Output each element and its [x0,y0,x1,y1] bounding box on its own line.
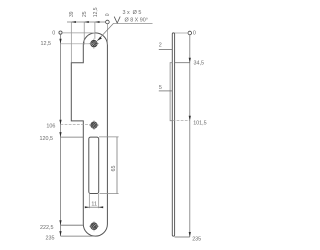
svg-text:39: 39 [69,11,75,17]
hole bottom [91,223,98,230]
top extension line 39 [70,22,72,63]
right ordinate dimension line [188,31,192,237]
top extension line 0 [106,24,108,45]
svg-text:Ø 8 X 90°: Ø 8 X 90° [125,18,148,24]
svg-text:5: 5 [159,85,162,91]
left ordinate dimension line [59,31,62,236]
top ordinate dimension line [67,20,109,24]
dim 65 extension top [99,136,119,138]
svg-text:0: 0 [193,30,196,36]
dim 11 arrows [85,206,103,208]
right leader 235 [175,236,190,238]
top dim arrows [71,21,99,23]
side view plate strip [172,33,174,236]
svg-text:106: 106 [46,123,55,129]
dim 11 extension right [98,194,100,208]
right leader 34,5 [175,62,190,64]
svg-text:235: 235 [46,236,55,242]
top extension line 12.5 [94,22,96,39]
svg-text:25: 25 [82,11,88,17]
svg-text:0: 0 [52,30,55,36]
svg-text:222,5: 222,5 [40,225,54,231]
leader 5 [159,90,173,92]
svg-text:11: 11 [91,201,97,207]
left leader 12.5 [61,43,95,45]
left leader 106 dashed [61,124,91,126]
hole bottom centerlines [89,221,99,231]
svg-text:65: 65 [111,166,117,172]
hole top [91,40,98,47]
leader 2 [159,49,173,51]
left leader 235 [61,235,96,237]
dim 65 extension bottom [100,193,119,195]
dim 65 line [116,137,118,194]
countersink symbol [114,17,120,23]
hole middle [91,122,97,128]
hole middle centerlines [89,120,99,130]
left leader 120.5 [61,136,84,138]
latch cutout [89,137,99,193]
dim 11 extension left [88,194,90,208]
svg-text:34,5: 34,5 [194,61,205,67]
side view lip thickness [170,63,172,121]
svg-text:12,5: 12,5 [41,41,52,47]
front view plate outline [71,33,107,236]
left dim arrows [59,39,61,236]
svg-text:2: 2 [159,43,162,49]
svg-text:12,5: 12,5 [93,7,99,17]
svg-text:235: 235 [192,236,201,242]
hole top centerlines [89,39,99,49]
right leader 0 [175,32,188,34]
svg-text:120,5: 120,5 [40,136,54,142]
left leader 222.5 [61,224,84,226]
dim 11 line [87,206,102,208]
left leader 0 [62,32,95,34]
svg-text:0: 0 [105,13,111,16]
right leader 101,5 dashed [173,120,190,122]
top extension line 25 [83,22,85,45]
hole callout leader [97,23,152,41]
svg-text:3 x Ø 5: 3 x Ø 5 [123,10,142,16]
right dim arrows [189,58,191,237]
svg-text:101,5: 101,5 [193,121,207,127]
